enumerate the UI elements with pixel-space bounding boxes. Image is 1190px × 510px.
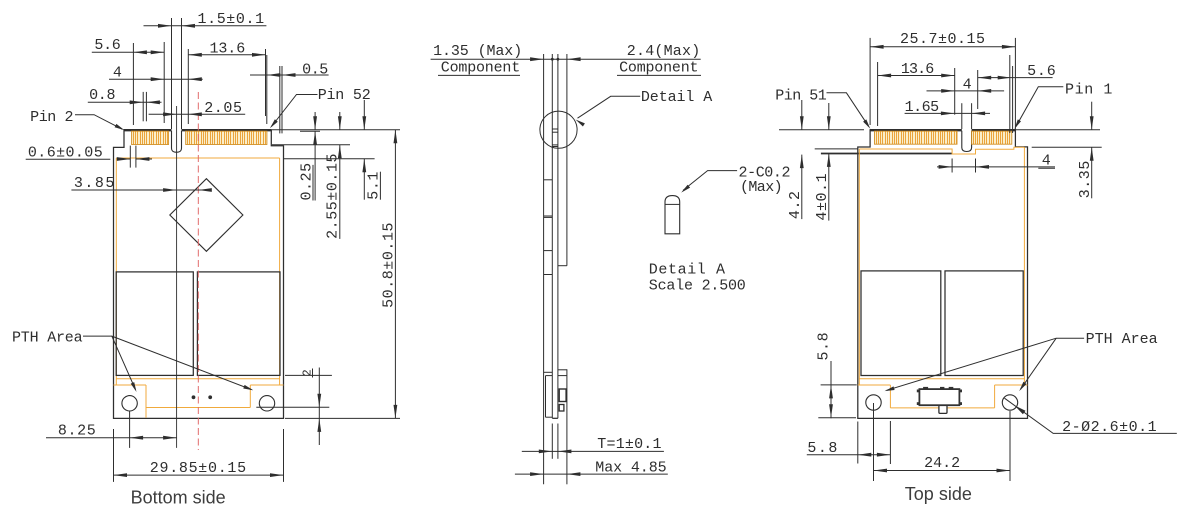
svg-text:2: 2 [302,369,315,376]
side view left components ticks [544,179,553,181]
dim 4±0.1 pin length [828,103,830,130]
top-side PTH boundary right (orange) [995,384,1028,386]
svg-text:2.05: 2.05 [204,100,242,117]
top-side mounting hole left [866,395,881,410]
svg-text:0.6±0.05: 0.6±0.05 [28,144,103,161]
svg-text:13.6: 13.6 [210,40,246,57]
top-side contact area line [821,153,952,155]
svg-text:25.7±0.15: 25.7±0.15 [900,31,986,48]
side view connector chamfer ticks [552,128,558,130]
svg-text:1.65: 1.65 [905,99,940,116]
svg-text:3.85: 3.85 [74,175,116,192]
svg-text:0.25: 0.25 [298,162,315,200]
dim 13.6 (bottom side) [188,54,265,56]
svg-text:50.8±0.15: 50.8±0.15 [380,222,397,308]
extension lines right of bottom-side view [272,129,400,131]
svg-text:4.2: 4.2 [787,190,804,219]
side view PCB right face [557,54,559,418]
svg-text:Pin 2: Pin 2 [30,109,73,126]
svg-text:1.35 (Max): 1.35 (Max) [433,43,522,60]
extension lines right of top-side view [1015,129,1100,131]
svg-text:0.8: 0.8 [89,87,115,104]
side view component envelope left line [543,54,545,484]
svg-text:Scale 2.500: Scale 2.500 [649,278,746,295]
dim 2.55±0.15 gold length [339,112,341,130]
bottom-side inner solder-mask outline (orange) [116,157,279,159]
svg-text:13.6: 13.6 [901,61,934,78]
svg-text:5.6: 5.6 [1027,63,1056,80]
bottom-side datum line [176,106,178,448]
dim 5.1 [363,100,365,130]
svg-text:29.85±0.15: 29.85±0.15 [150,460,247,477]
detail A enlarged pin [665,196,680,234]
svg-text:5.1: 5.1 [366,171,383,200]
leader 2-C0.2 (Max) [683,171,737,191]
svg-text:PTH Area: PTH Area [1086,331,1158,348]
svg-text:24.2: 24.2 [924,455,960,472]
top-side component block right [945,271,1023,376]
svg-text:Pin 52: Pin 52 [318,87,371,104]
svg-text:Detail A: Detail A [641,89,712,106]
svg-text:4: 4 [963,76,973,93]
detail A circle [540,111,577,148]
svg-text:8.25: 8.25 [58,423,96,440]
side view component envelope right line [566,54,568,266]
top-side component block left [861,271,941,376]
bottom-side component block right [197,272,280,376]
leader Detail A callout [578,96,641,118]
bottom-side gold fingers group pins 36-52 [186,131,267,144]
top-side switch component [917,390,920,393]
dim 50.8±0.15 card length [394,130,396,419]
top-side mounting hole right [1002,395,1017,410]
svg-text:5.6: 5.6 [94,37,120,54]
dim 5.6 (bottom side) [92,51,164,53]
bottom-side connector edge (thick) [124,129,172,131]
top-side gold fingers group pins 15-1 [972,131,1012,144]
dim 0.8 (bottom side) [88,101,162,103]
bottom-side fiducial dot right [208,395,212,399]
bottom-side mounting hole right [259,396,274,411]
dim 2 (PTH band height) [318,368,320,446]
bottom-side fiducial dot left [192,395,196,399]
svg-text:Detail A: Detail A [649,262,726,279]
dim 13.6 (top side) [878,75,955,77]
svg-text:Bottom side: Bottom side [131,488,226,508]
dim 1.65 key offset [905,112,990,114]
side view right component tick [558,265,567,267]
side view PCB left face [551,54,553,418]
extension lines left of top-side view [779,129,864,131]
svg-text:2.4(Max): 2.4(Max) [627,43,701,60]
bottom-side view: PCB outline [114,130,284,419]
svg-text:Pin 51: Pin 51 [775,88,827,105]
top-side view: PCB outline [858,130,1028,419]
svg-text:3.35: 3.35 [1077,160,1094,198]
svg-text:T=1±0.1: T=1±0.1 [597,436,661,453]
svg-text:0.5: 0.5 [302,62,328,79]
svg-text:(Max): (Max) [740,179,782,196]
dim 5.8 vertical (PTH band height) [821,384,857,386]
dim 0.25 gold setback [314,112,316,130]
side view PCB bottom edge [552,417,558,419]
dim 4 (top side upper) [927,90,1005,92]
svg-text:5.8: 5.8 [815,332,832,361]
svg-text:Component: Component [619,59,698,76]
svg-text:Top side: Top side [905,484,972,504]
top-side gold fingers group pins 51-17 [875,131,958,144]
bottom-side red center line [197,92,199,450]
svg-text:1.5±0.1: 1.5±0.1 [198,11,265,28]
bottom-side gold fingers group pins 2-34 [132,131,169,144]
dim 3.35 [1091,102,1093,130]
bottom-side PTH boundary right (orange) [250,384,283,386]
svg-text:4±0.1: 4±0.1 [814,173,831,221]
top-side connector edge (thick) [870,129,962,131]
bottom-side mounting hole left [122,396,137,411]
dim 25.7±0.15 connector width [870,46,1015,48]
dim 1.35 (Max) Component [431,58,701,60]
svg-text:2.55±0.15: 2.55±0.15 [325,153,342,239]
svg-text:PTH Area: PTH Area [12,330,83,347]
bottom-side PTH boundary left (orange) [114,384,147,386]
top-side PTH boundary left (orange) [858,384,891,386]
bottom-side component block left [116,272,193,376]
dim T=1±0.1 PCB thickness [522,450,664,452]
top-side inner solder-mask outline (orange) [859,147,1024,154]
bottom-side polarity diamond component [170,179,243,252]
svg-text:4: 4 [113,65,123,82]
svg-text:Pin 1: Pin 1 [1065,81,1113,98]
bottom-side keep-out line bottom (orange) [146,407,250,409]
dim 0.5 (bottom side) [250,74,329,76]
dim 2.05 (bottom side) [149,113,246,115]
dim 4 notch area (top side) [937,166,1055,168]
side view bottom-left component [545,376,547,418]
svg-text:4: 4 [1042,152,1052,169]
top-side keep-out line bottom (orange) [890,407,994,409]
svg-text:Max 4.85: Max 4.85 [595,460,666,477]
dim 1.5±0.1 notch width [144,25,267,27]
top-side connector key notch [962,131,972,152]
svg-text:Component: Component [441,59,520,76]
bottom-side connector key notch [172,131,182,153]
dim 5.6 (top side) [978,77,1053,79]
dim Max 4.85 overall thickness [515,473,668,475]
dim 4.2 contact length [801,100,803,130]
side view switch side profile [558,369,567,371]
dim 4 (bottom side) [109,78,203,80]
